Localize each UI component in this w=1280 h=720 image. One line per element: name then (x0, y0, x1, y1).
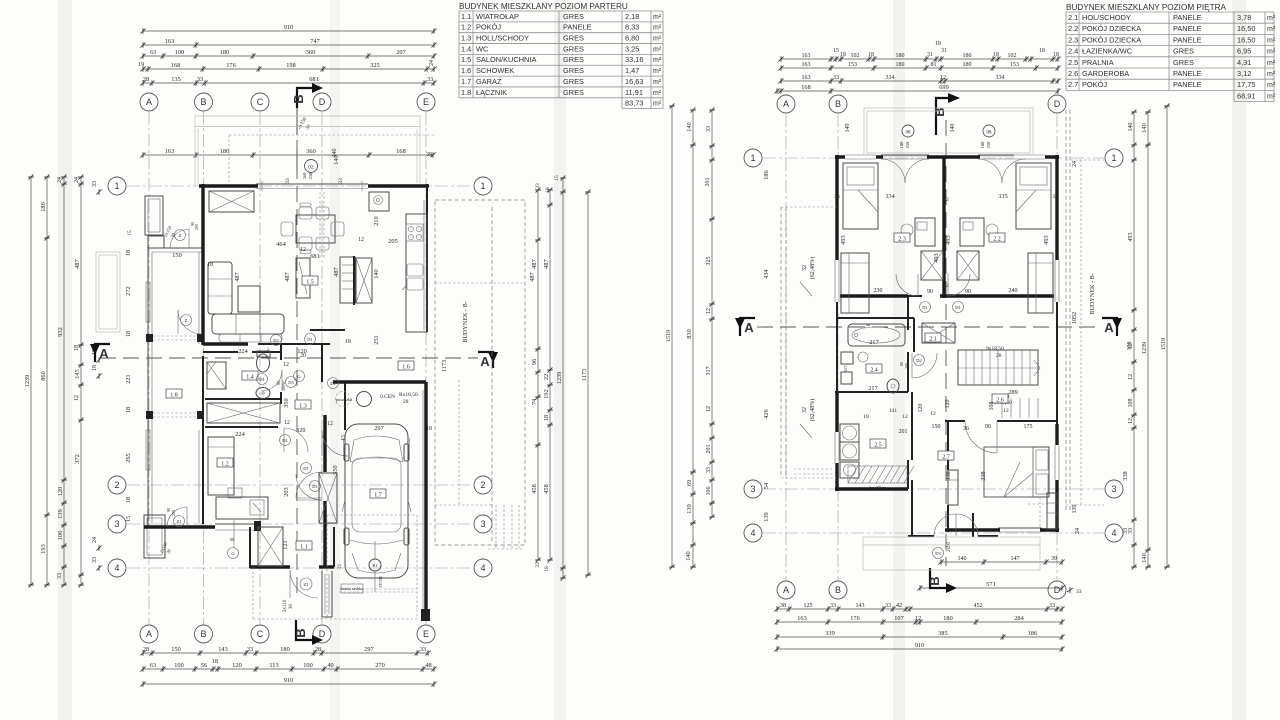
svg-text:68,91: 68,91 (1237, 91, 1256, 100)
hall dim labels (874, 283, 1018, 295)
entry door swing (290, 570, 318, 598)
svg-text:33: 33 (420, 646, 426, 653)
svg-text:48: 48 (425, 662, 431, 669)
svg-text:24: 24 (74, 177, 80, 183)
svg-text:434: 434 (763, 268, 770, 278)
svg-text:2x110: 2x110 (283, 599, 288, 612)
svg-text:18: 18 (125, 407, 132, 413)
dimension row left plan 910 top (140, 24, 436, 34)
svg-text:88: 88 (230, 537, 234, 542)
svg-text:18: 18 (1053, 52, 1059, 58)
hall door arc left room (896, 274, 918, 296)
section mark A left right plan (735, 318, 755, 336)
svg-text:338: 338 (1122, 471, 1129, 480)
svg-text:33: 33 (830, 603, 836, 609)
kitchen shelf (340, 257, 355, 303)
svg-text:8,33: 8,33 (625, 23, 639, 32)
svg-text:2.7: 2.7 (942, 454, 950, 460)
inner rotated dims right plan left (763, 170, 770, 521)
svg-text:120: 120 (918, 404, 924, 413)
inner dimension labels left side (125, 250, 132, 522)
svg-text:36: 36 (963, 426, 969, 432)
svg-text:B: B (835, 99, 841, 109)
svg-text:201: 201 (899, 429, 908, 435)
svg-text:E: E (423, 629, 429, 639)
axis marker D bottom left-plan (313, 625, 331, 643)
svg-text:176: 176 (850, 615, 859, 622)
svg-text:12: 12 (902, 414, 908, 420)
svg-text:1.8: 1.8 (461, 88, 471, 97)
svg-text:325: 325 (370, 62, 379, 69)
svg-text:BUDYNEK - B-: BUDYNEK - B- (462, 301, 469, 343)
svg-text:33: 33 (833, 75, 839, 81)
interior dimension labels corridor (235, 348, 432, 570)
svg-text:186: 186 (40, 202, 47, 211)
svg-text:125: 125 (804, 603, 813, 609)
svg-text:1239: 1239 (24, 375, 31, 388)
svg-text:180: 180 (220, 49, 229, 56)
axis marker 1 right left-plan (474, 177, 492, 195)
bottom wall annex (144, 524, 254, 530)
dimension column left plan 487 (74, 174, 84, 587)
svg-text:6,80: 6,80 (625, 34, 639, 43)
svg-text:18: 18 (863, 414, 869, 420)
svg-text:GRES: GRES (1173, 47, 1194, 56)
svg-text:120: 120 (945, 400, 951, 409)
svg-text:201: 201 (705, 178, 711, 187)
svg-text:910: 910 (284, 677, 293, 684)
svg-text:1,47: 1,47 (625, 66, 639, 75)
car wheels (344, 444, 409, 545)
section mark B top right plan (932, 93, 960, 135)
room label 2.5 laundry (870, 439, 886, 448)
section mark A right right plan (1102, 318, 1122, 336)
svg-text:PANELE: PANELE (1173, 35, 1202, 44)
room label 1.5 salon (302, 276, 318, 285)
svg-text:69: 69 (686, 480, 693, 486)
svg-text:18: 18 (840, 52, 846, 58)
svg-text:12: 12 (1128, 374, 1134, 380)
svg-text:830: 830 (686, 329, 693, 338)
svg-text:2.4: 2.4 (1068, 47, 1078, 56)
svg-text:1.4: 1.4 (246, 374, 254, 380)
svg-text:12: 12 (1128, 418, 1134, 424)
svg-text:1.5: 1.5 (306, 279, 314, 285)
wardrobe corridor left plan (207, 403, 280, 423)
porch bottom right plan (863, 537, 1040, 570)
svg-text:bp=80cm: bp=80cm (869, 485, 887, 490)
svg-text:338: 338 (945, 471, 952, 480)
svg-text:2,18: 2,18 (625, 12, 639, 21)
svg-text:B: B (927, 576, 942, 585)
svg-text:83,73: 83,73 (625, 99, 644, 108)
svg-text:150: 150 (172, 252, 181, 259)
svg-text:1.3: 1.3 (299, 403, 307, 409)
svg-text:175: 175 (1024, 424, 1033, 430)
svg-text:140: 140 (373, 269, 380, 278)
svg-text:141: 141 (889, 408, 898, 414)
axis marker A top right-plan (777, 95, 795, 113)
dimension column right plan 1519 left (665, 103, 675, 569)
svg-text:33: 33 (1123, 528, 1129, 534)
dimension column left plan right col3 (556, 175, 566, 580)
svg-text:Z1: Z1 (177, 519, 182, 524)
svg-text:140: 140 (958, 556, 967, 562)
axis marker B top right-plan (829, 95, 847, 113)
svg-text:33: 33 (706, 467, 712, 473)
svg-text:1.1: 1.1 (300, 544, 308, 550)
small dim labels above entry (283, 599, 294, 612)
svg-text:A: A (1104, 320, 1114, 335)
axis marker 1 right right-plan (1105, 149, 1123, 167)
svg-text:12: 12 (1003, 408, 1009, 414)
axis marker 3 left left-plan (108, 515, 126, 533)
svg-text:426: 426 (763, 409, 770, 418)
svg-text:HOLL/SCHODY: HOLL/SCHODY (476, 34, 529, 43)
svg-text:A: A (744, 320, 754, 335)
svg-text:m²: m² (1267, 49, 1276, 56)
svg-text:24: 24 (429, 60, 435, 66)
svg-text:m²: m² (1267, 82, 1276, 89)
svg-text:487: 487 (333, 267, 340, 276)
svg-text:3: 3 (1111, 484, 1116, 494)
svg-text:1.2: 1.2 (461, 23, 471, 32)
svg-text:339: 339 (825, 630, 834, 637)
dimension row left plan 63-207 (140, 49, 436, 59)
section line A left plan (100, 357, 478, 359)
axis marker 2 right left-plan (474, 476, 492, 494)
svg-text:32: 32 (802, 265, 808, 271)
svg-text:A: A (146, 97, 152, 107)
svg-text:297: 297 (364, 646, 373, 653)
axis grid lines left plan (127, 112, 473, 624)
svg-text:18: 18 (125, 331, 132, 337)
svg-text:90: 90 (927, 289, 933, 295)
svg-text:12: 12 (706, 406, 712, 412)
svg-text:20: 20 (300, 353, 306, 359)
svg-text:C: C (257, 629, 264, 639)
couch right kid room (1028, 253, 1053, 313)
entry porch left (96, 252, 120, 332)
svg-text:180: 180 (280, 646, 289, 653)
svg-text:D2: D2 (273, 338, 279, 343)
svg-text:m²: m² (1267, 60, 1276, 67)
wc shower (207, 362, 226, 389)
svg-text:200W: 200W (281, 381, 286, 391)
svg-text:WC: WC (476, 44, 489, 53)
svg-text:224: 224 (235, 431, 245, 438)
svg-text:ŁAZIENKA/WC: ŁAZIENKA/WC (1082, 47, 1133, 56)
svg-text:24: 24 (1075, 528, 1081, 534)
svg-text:A: A (783, 99, 789, 109)
svg-text:1.8: 1.8 (170, 392, 178, 398)
svg-text:150: 150 (171, 646, 180, 653)
axis marker B bottom left-plan (195, 625, 213, 643)
svg-text:28: 28 (143, 646, 149, 653)
svg-text:18: 18 (74, 345, 80, 351)
svg-text:201: 201 (706, 445, 712, 454)
svg-text:1.2: 1.2 (221, 461, 229, 467)
svg-text:m²: m² (1267, 71, 1276, 78)
svg-text:24: 24 (1072, 161, 1078, 167)
svg-text:493: 493 (840, 235, 847, 244)
svg-text:100: 100 (174, 662, 183, 669)
svg-text:145: 145 (74, 369, 81, 378)
interior dims kid rooms (834, 193, 1058, 203)
svg-text:493: 493 (933, 253, 940, 262)
svg-text:POKÓJ DZIECKA: POKÓJ DZIECKA (1082, 35, 1141, 44)
right wall right plan (1055, 155, 1058, 532)
window pralnia left wall (834, 432, 840, 463)
window markers above top wall right plan (845, 124, 995, 149)
lacznik walls (322, 344, 345, 567)
svg-text:120: 120 (232, 662, 241, 669)
svg-text:16,50: 16,50 (1237, 24, 1256, 33)
dimension row right plan bottom 910 (774, 642, 1064, 652)
center wall kid rooms (942, 157, 945, 298)
svg-text:120: 120 (297, 428, 306, 434)
tv shelf (296, 258, 310, 298)
pralnia walls (835, 392, 908, 489)
svg-text:334: 334 (996, 75, 1005, 81)
svg-text:33: 33 (535, 562, 541, 568)
svg-text:2.2: 2.2 (993, 236, 1001, 242)
svg-text:487: 487 (234, 272, 241, 281)
svg-text:140: 140 (1128, 123, 1134, 132)
svg-text:m²: m² (653, 57, 662, 64)
svg-text:GRES: GRES (1173, 58, 1194, 67)
svg-text:180: 180 (896, 53, 905, 59)
bedroom wardrobe (1047, 493, 1057, 529)
dimension column left plan 860 (40, 174, 50, 587)
dimension row left plan 163-747 (140, 38, 436, 48)
svg-text:11,91: 11,91 (625, 88, 643, 97)
svg-text:747: 747 (310, 38, 319, 45)
svg-text:334: 334 (885, 193, 895, 200)
coffee table (238, 286, 260, 312)
svg-text:12: 12 (300, 247, 306, 253)
svg-text:571: 571 (986, 581, 995, 588)
svg-text:6,95: 6,95 (1237, 47, 1251, 56)
bottom wall block (254, 521, 261, 531)
svg-text:63: 63 (150, 662, 156, 669)
svg-text:140: 140 (685, 551, 692, 560)
svg-text:22: 22 (543, 374, 550, 380)
roof overhang line left plan (195, 116, 420, 186)
svg-text:D1: D1 (259, 377, 265, 382)
svg-text:2x90: 2x90 (947, 542, 952, 553)
dimension row right plan 140-147-39 (938, 556, 1064, 565)
top wall left plan (199, 184, 429, 189)
svg-text:139: 139 (686, 504, 693, 513)
svg-text:270: 270 (375, 662, 384, 669)
window over bed left (845, 154, 876, 160)
svg-text:GRES: GRES (563, 44, 584, 53)
axis marker B top left-plan (195, 93, 213, 111)
room table ground floor (459, 2, 663, 109)
svg-text:2.2: 2.2 (1068, 24, 1078, 33)
svg-text:230: 230 (874, 288, 883, 294)
svg-text:860: 860 (40, 371, 47, 380)
wall axis B vertical (201, 184, 204, 524)
svg-text:39: 39 (426, 152, 432, 158)
svg-text:217: 217 (869, 339, 878, 346)
svg-text:335: 335 (998, 193, 1007, 200)
svg-text:139: 139 (1072, 505, 1078, 514)
dimension row right plan row2 (778, 62, 1060, 71)
top wall right plan (835, 155, 1059, 159)
svg-text:12: 12 (358, 237, 364, 243)
flue dashed lines (320, 192, 324, 258)
left annex outer wall (148, 248, 203, 527)
dimension column left plan right col1 (531, 187, 541, 562)
svg-text:13: 13 (341, 435, 347, 441)
svg-text:250: 250 (905, 141, 910, 149)
axis marker A bottom right-plan (777, 581, 795, 599)
svg-text:33: 33 (338, 178, 344, 184)
axis marker 4 right left-plan (474, 559, 492, 577)
svg-text:140: 140 (1141, 123, 1148, 132)
desk right kid room (960, 218, 998, 246)
svg-text:350: 350 (283, 398, 290, 407)
svg-text:Z: Z (185, 318, 188, 323)
svg-text:Rx18,50: Rx18,50 (399, 392, 418, 398)
svg-text:08: 08 (906, 131, 912, 136)
axis marker B bottom right-plan (829, 581, 847, 599)
svg-text:203: 203 (283, 487, 290, 496)
entry label (933, 542, 953, 559)
pralnia door label (869, 485, 887, 490)
svg-text:Z: Z (179, 233, 182, 238)
dimension column left plan 932 (57, 174, 67, 587)
svg-text:153: 153 (1010, 62, 1019, 68)
svg-text:C: C (257, 97, 264, 107)
svg-text:D1: D1 (307, 337, 313, 342)
bath sink (858, 352, 868, 362)
svg-text:D: D (1054, 99, 1061, 109)
svg-text:4: 4 (1111, 528, 1116, 538)
svg-text:A: A (783, 585, 789, 595)
svg-text:15: 15 (127, 230, 133, 236)
svg-text:2.3: 2.3 (1068, 35, 1078, 44)
svg-text:A: A (146, 629, 152, 639)
svg-text:4: 4 (480, 563, 485, 573)
stairs labels (986, 346, 1012, 406)
svg-text:910: 910 (284, 24, 293, 31)
svg-text:699: 699 (939, 84, 948, 91)
wardrobe hall right plan (922, 323, 955, 343)
svg-text:28: 28 (403, 399, 409, 405)
section line B right plan (945, 120, 947, 566)
lacznik door swing 2 (296, 472, 322, 498)
svg-text:168: 168 (801, 84, 810, 91)
svg-text:180: 180 (980, 141, 985, 149)
room label 2.2 kid room (989, 233, 1005, 242)
svg-text:338: 338 (980, 471, 987, 480)
svg-text:D2: D2 (916, 358, 922, 363)
svg-text:1: 1 (1111, 153, 1116, 163)
svg-text:GARAŻ: GARAŻ (476, 77, 502, 86)
svg-text:BUDYNEK MIESZKLANY POZIOM PIĘT: BUDYNEK MIESZKLANY POZIOM PIĘTRA (1066, 3, 1227, 12)
svg-text:33: 33 (834, 194, 840, 200)
wardrobe stairs left plan (258, 527, 283, 566)
svg-text:681: 681 (309, 76, 318, 83)
svg-text:186: 186 (1028, 630, 1037, 637)
svg-text:33: 33 (1052, 194, 1058, 200)
entry door swings (934, 514, 978, 536)
svg-text:2.5: 2.5 (874, 442, 882, 448)
svg-text:150: 150 (932, 424, 941, 430)
bedroom walls (945, 421, 1059, 532)
svg-text:3,78: 3,78 (1237, 13, 1251, 22)
svg-text:A: A (99, 346, 109, 361)
entry walls bottom (908, 513, 998, 537)
dimension row right plan row3 (778, 75, 1060, 84)
svg-text:12: 12 (283, 362, 289, 368)
svg-text:19: 19 (138, 61, 144, 68)
svg-text:140: 140 (845, 124, 851, 133)
downpipe mark (228, 520, 239, 559)
svg-text:106: 106 (706, 487, 712, 496)
terrace dashed right strip (1066, 110, 1104, 510)
svg-text:272: 272 (125, 286, 132, 295)
svg-text:4: 4 (750, 528, 755, 538)
wc door swing (261, 370, 312, 474)
svg-text:360: 360 (306, 49, 315, 56)
svg-text:2.1: 2.1 (1068, 13, 1078, 22)
svg-text:385: 385 (938, 630, 947, 637)
svg-text:163: 163 (797, 615, 806, 622)
wc toilet (257, 351, 271, 372)
room label 2.4 bathroom (866, 364, 882, 373)
axis marker 3 left right-plan (744, 480, 762, 498)
dimension column right plan right col1 (1128, 109, 1137, 569)
svg-text:12: 12 (327, 421, 333, 427)
svg-text:2T/2B: 2T/2B (378, 576, 383, 588)
svg-text:24: 24 (92, 537, 98, 543)
dimension row left plan bottom 910 (140, 677, 436, 687)
room label 2.3 kid room (894, 233, 910, 242)
dimension row right plan bottom row1 (774, 603, 1064, 612)
svg-text:1.4: 1.4 (461, 44, 471, 53)
svg-text:90: 90 (965, 289, 971, 295)
svg-text:GRES: GRES (563, 12, 584, 21)
svg-text:487: 487 (543, 259, 550, 268)
balcony door swings top (881, 159, 1026, 183)
svg-text:100: 100 (303, 662, 312, 669)
dimension row left plan 163-360-168 inner (140, 148, 435, 158)
stairs right plan (958, 350, 1040, 385)
svg-text:186: 186 (763, 170, 770, 179)
svg-text:33: 33 (92, 181, 98, 187)
svg-text:12: 12 (284, 420, 290, 426)
svg-text:102: 102 (851, 53, 860, 59)
bedroom bed (984, 447, 1049, 528)
svg-text:12: 12 (74, 395, 80, 401)
svg-text:30: 30 (289, 604, 294, 610)
dining table (281, 203, 344, 254)
svg-text:18: 18 (868, 52, 874, 58)
svg-text:m²: m² (653, 101, 662, 108)
svg-text:3: 3 (480, 519, 485, 529)
svg-text:PANELE: PANELE (563, 23, 592, 32)
room 1.2 door swing (280, 428, 309, 452)
svg-text:1239: 1239 (556, 372, 563, 385)
svg-text:140: 140 (333, 155, 340, 164)
axis marker 1 left right-plan (744, 149, 762, 167)
svg-text:297: 297 (374, 425, 383, 432)
svg-text:493: 493 (945, 235, 952, 244)
